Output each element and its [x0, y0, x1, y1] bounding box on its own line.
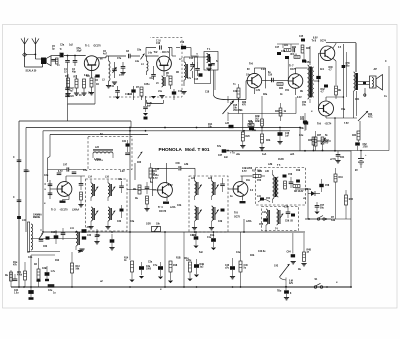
resistor R36r [314, 131, 317, 151]
svg-text:L26AA: L26AA [72, 209, 80, 212]
svg-text:R1b: R1b [210, 235, 215, 237]
capacitor C43 [190, 232, 199, 248]
rail dots [18, 286, 352, 288]
wire Tr1 emitter [91, 71, 93, 78]
svg-text:S7u: S7u [217, 146, 222, 148]
cluster left of Tr8 [299, 35, 311, 63]
title [159, 147, 210, 152]
wire rail y127 [26, 128, 300, 233]
svg-text:SCALA 30: SCALA 30 [26, 70, 38, 73]
coil L3 [102, 56, 111, 88]
svg-text:Tr 7: Tr 7 [289, 64, 294, 68]
svg-text:Tr: Tr [60, 48, 62, 51]
svg-text:1uA: 1uA [262, 153, 267, 156]
wire Tr9 emitter [326, 116, 357, 130]
resistor R31m [275, 103, 287, 121]
wire y100 [147, 100, 164, 104]
dashed box T2 [88, 134, 132, 170]
dashed box T3T4 [262, 207, 299, 231]
svg-text:R2b: R2b [266, 140, 271, 142]
svg-text:7Bu: 7Bu [277, 291, 282, 293]
vertical rail x354 [326, 43, 356, 72]
label Tr9 [317, 122, 332, 126]
IF2 cap a [220, 178, 225, 192]
svg-text:6.7V: 6.7V [242, 171, 247, 173]
resistor R34d [352, 131, 360, 142]
resistor R17 [252, 171, 265, 178]
label gamma medie [33, 214, 42, 219]
label Tr1 [85, 44, 101, 48]
svg-text:MEDIE: MEDIE [33, 217, 41, 219]
capacitor C64b [94, 229, 99, 244]
svg-text:1/2R: 1/2R [146, 224, 151, 226]
wire node A [64, 55, 86, 57]
IF1 cap b [117, 205, 124, 223]
wire Tr8 base [314, 53, 321, 108]
capacitor C15 [194, 62, 200, 81]
box around T1 [195, 54, 211, 84]
wire Tr6 emitter [254, 88, 260, 94]
capacitor C16 [176, 42, 191, 56]
label Tr2 [154, 50, 170, 54]
svg-text:6.7V: 6.7V [153, 178, 158, 180]
resistor R14b [129, 261, 134, 282]
svg-text:NTC: NTC [368, 116, 373, 118]
T5 bottom parts [257, 196, 271, 202]
svg-text:8V: 8V [247, 69, 250, 71]
capacitor on x26 [24, 170, 30, 173]
T3T4 caps [286, 207, 295, 218]
wire x184 col [184, 232, 192, 287]
wire x165 col [164, 232, 166, 287]
svg-text:S1b: S1b [331, 220, 336, 222]
capacitor C55 [259, 218, 268, 226]
IF1 coil 3 [88, 207, 98, 229]
switch S1b [317, 216, 335, 223]
capacitor C2 blob [41, 58, 46, 65]
svg-text:C4u: C4u [299, 134, 304, 137]
transistor Tr9 [319, 101, 334, 116]
wire x305 down [305, 196, 308, 219]
trimmer C9 [140, 54, 144, 60]
capacitor C37 [218, 149, 229, 159]
wire if top [48, 169, 87, 171]
svg-text:1000: 1000 [146, 268, 152, 270]
svg-text:9V: 9V [355, 170, 358, 172]
diode D1 [305, 189, 320, 196]
wire Tr6-Tr7 [262, 58, 289, 81]
label Tr6 [247, 62, 266, 72]
svg-text:u7u: u7u [225, 267, 230, 269]
svg-text:Tr9: Tr9 [317, 122, 321, 126]
capacitor C6 [95, 75, 100, 83]
svg-text:OC170: OC170 [94, 46, 102, 48]
svg-text:L2B: L2B [268, 164, 273, 166]
T5 winding [273, 170, 279, 203]
capacitor C62b [43, 236, 50, 248]
svg-text:C2b: C2b [28, 257, 33, 259]
wire Tr8 collector [333, 43, 336, 48]
resistor Rm1 [240, 132, 250, 148]
wire antenna joins [25, 54, 43, 67]
wire Tr5 base [228, 188, 233, 190]
wire Tr8 emitter [329, 59, 337, 86]
resistor R25t [0, 0, 1, 1]
resistor R13 [71, 252, 81, 287]
part A10 [82, 226, 92, 240]
svg-text:- OC171: - OC171 [161, 52, 170, 54]
pot half R [146, 224, 161, 232]
wire x19 top [18, 120, 20, 122]
driver transformer T6 [304, 61, 314, 99]
resistor R15b [168, 261, 178, 283]
wire battery [351, 150, 389, 153]
wire x130 col [129, 232, 131, 260]
dashed box IF1 [86, 179, 128, 231]
label C59 [285, 221, 294, 223]
svg-text:6.7V: 6.7V [58, 171, 63, 173]
wire x26 col [0, 0, 1, 1]
transformer T1 box [204, 49, 218, 70]
svg-text:Tr5: Tr5 [234, 211, 238, 215]
capacitor C53 [300, 113, 307, 131]
svg-text:AP: AP [374, 68, 378, 71]
svg-text:R1B: R1B [176, 258, 181, 260]
T2 winding [93, 147, 113, 162]
label Tr4 [150, 175, 167, 213]
label Tr3 [51, 208, 80, 212]
coil L5 osc [156, 76, 165, 87]
svg-text:2uF: 2uF [224, 157, 229, 159]
resistor R28m [255, 114, 263, 126]
IF2 cap b [218, 209, 225, 224]
svg-text:C4u: C4u [236, 251, 241, 254]
svg-text:7.5V: 7.5V [344, 123, 349, 125]
capacitor C3a [139, 262, 152, 279]
vertical rail x345 [342, 44, 351, 118]
svg-text:R8 16.8V: R8 16.8V [294, 191, 304, 193]
svg-text:R1u: R1u [96, 235, 101, 237]
ground g1 [151, 80, 165, 99]
trimmer C14 [190, 62, 195, 78]
wire mid right [334, 130, 336, 151]
capacitor C47 series [63, 164, 69, 172]
wire Tr5 emitter [240, 195, 246, 203]
transistor Tr5 [233, 182, 248, 197]
label R values [65, 76, 91, 79]
capacitor C28 [42, 266, 56, 281]
wire y232 dots [42, 127, 323, 233]
wire Tr7 emitter [296, 88, 303, 99]
wire Tr2 collector up [168, 48, 170, 58]
svg-text:u2A: u2A [290, 153, 295, 156]
svg-text:470k: 470k [17, 273, 23, 276]
resistor R30m [308, 137, 315, 151]
thermistor R33d [358, 111, 373, 131]
label mid [170, 206, 176, 209]
capacitor C4 [64, 55, 70, 73]
svg-text:+ 7u: + 7u [230, 153, 235, 155]
dashed segment [0, 0, 1, 1]
wire Tr4 collector [166, 163, 168, 184]
capacitor C11 [115, 86, 120, 99]
IF1 coil 4 [105, 207, 115, 229]
output transformer T5 primary [354, 43, 358, 91]
wire Tr3 emitter [60, 195, 70, 203]
capacitor C52b [316, 76, 328, 93]
part R25m [248, 121, 254, 126]
dashed box IF2 [189, 176, 228, 232]
IF2 coil 2 [208, 177, 219, 201]
resistor R46 [239, 232, 248, 287]
svg-text:Tr2: Tr2 [154, 50, 158, 54]
capacitor C105 [51, 230, 58, 244]
IF1 cap a [118, 179, 124, 193]
capacitor C21 col [67, 104, 69, 121]
resistor R4 [81, 79, 86, 95]
svg-text:C25u: C25u [144, 84, 150, 86]
wire y219 [305, 218, 331, 220]
resistor R1 [0, 0, 1, 1]
wire between box1 Tr4 [127, 163, 156, 190]
wire Tr4 base [153, 184, 158, 196]
dashed box T5 [256, 165, 306, 205]
svg-text:C7u: C7u [153, 265, 158, 267]
T2 caps [122, 140, 130, 155]
svg-text:VOLUME: VOLUME [233, 110, 243, 112]
svg-text:C2u: C2u [44, 175, 49, 177]
svg-text:L26A: L26A [246, 220, 252, 223]
resistor R2 [65, 74, 70, 96]
labels group bottom [13, 250, 302, 291]
label L26A [244, 219, 252, 232]
resistor R6 [169, 76, 172, 89]
labels bottom right [336, 282, 338, 284]
agc cluster labels [275, 45, 297, 56]
resistor R24 [277, 83, 284, 90]
svg-text:C35u: C35u [153, 175, 159, 177]
svg-text:1.3V: 1.3V [256, 90, 261, 92]
capacitor C58 [319, 179, 330, 192]
T3T4 winding 1 [266, 209, 270, 232]
svg-text:C 10: C 10 [156, 41, 162, 43]
resistor R36b [345, 190, 354, 213]
vertical x351 bottom [350, 219, 352, 287]
coil L4 [141, 56, 148, 75]
svg-text:OC170: OC170 [159, 211, 167, 213]
capacitor C65 [109, 234, 114, 250]
resistor R5 [89, 78, 94, 95]
capacitor C7b2 [153, 262, 163, 279]
switch S1a [314, 279, 328, 288]
capacitor C63 [61, 228, 66, 240]
trimmer cap C3 [60, 48, 64, 58]
wire Tr2 feedback top [146, 48, 172, 57]
capacitor C62 [355, 142, 368, 150]
wire Tr9 base [311, 109, 318, 114]
resistor R7 [140, 87, 143, 100]
trimmer C7 [112, 60, 117, 84]
capacitor C42 [207, 232, 216, 250]
antenna AN1 [21, 38, 28, 68]
labels group rf2 [60, 45, 192, 98]
capacitor C46 [277, 129, 289, 144]
input coil L1 cone [46, 56, 51, 66]
T2 trimmer [137, 152, 142, 164]
battery B1 [355, 153, 367, 173]
wire to speaker [354, 82, 370, 119]
svg-text:C3u: C3u [83, 170, 88, 172]
part L28 [225, 123, 234, 128]
wire y150 rail [222, 150, 351, 155]
IF1 coil 1 [91, 180, 98, 202]
svg-text:4.25Vu: 4.25Vu [94, 158, 102, 161]
wire rail y131 [43, 131, 290, 232]
svg-text:- OC170: - OC170 [59, 210, 68, 212]
labels group amp1 [230, 38, 388, 126]
svg-text:C13u: C13u [125, 94, 131, 96]
ferrite antenna L10 [22, 220, 60, 255]
svg-text:1.7u: 1.7u [51, 271, 56, 273]
IF2 coil 3 [192, 206, 202, 230]
resistor R23 [233, 84, 240, 102]
wire Tr5 collector [241, 167, 253, 182]
svg-text:Mod.: Mod. [185, 147, 196, 152]
coil L11 [70, 228, 83, 253]
svg-text:6.7V: 6.7V [168, 185, 173, 187]
pot R37 [316, 135, 331, 144]
T3T4 winding 2 [277, 209, 284, 225]
transistor Tr7 [288, 74, 303, 89]
label Tr5 [234, 211, 241, 219]
capacitor C57 [314, 202, 324, 214]
svg-text:PHONOLA: PHONOLA [159, 147, 183, 152]
parts before Tr4 [133, 182, 150, 211]
svg-text:8.5V: 8.5V [313, 38, 318, 40]
wire Tr7 to driver [304, 46, 310, 103]
svg-text:L2B: L2B [184, 164, 189, 166]
capacitor C50 [268, 72, 273, 82]
svg-text:40p: 40p [72, 70, 77, 73]
capacitor C34m [300, 116, 308, 130]
speaker AP [370, 68, 383, 90]
svg-text:u0u: u0u [236, 154, 241, 156]
capacitor C22 [65, 88, 74, 98]
labels group mid1 [208, 116, 304, 156]
svg-text:50u: 50u [320, 207, 325, 209]
transformer T1 windings [206, 54, 214, 71]
wire right rail x389 [385, 61, 389, 151]
resistor R26m [259, 126, 264, 150]
resistor R3 [74, 75, 79, 95]
svg-text:5uF: 5uF [199, 252, 204, 254]
wire x346 to rail [331, 188, 346, 219]
transistor Tr4 [158, 183, 173, 198]
resistor R32m [321, 137, 329, 151]
svg-text:C59 .05: C59 .05 [285, 221, 294, 223]
wire Tr2 emitter [163, 71, 165, 76]
svg-text:C4r: C4r [246, 74, 250, 77]
resistor R11b [17, 262, 27, 287]
vertical x351 [350, 151, 352, 177]
wire osc top [172, 56, 199, 62]
wire to Tr2 [145, 55, 159, 57]
svg-text:42V: 42V [289, 282, 294, 285]
svg-text:50u: 50u [302, 104, 307, 106]
wire pot [227, 96, 229, 121]
agc cluster parts [277, 44, 300, 59]
labels group rf1 [52, 46, 218, 94]
label SCALA [26, 70, 38, 73]
svg-text:1700: 1700 [363, 146, 369, 148]
wire y163 [153, 168, 179, 184]
wire Tr6 collector [254, 68, 265, 88]
resistor R16b [185, 258, 193, 281]
wire Tr1 collector [86, 55, 87, 58]
labels group volts [94, 158, 337, 187]
wire x351 lower [346, 176, 351, 219]
resistor R16 [149, 163, 157, 182]
wire Tr7 collector [296, 68, 305, 74]
wire Tr4 emitter [163, 197, 169, 204]
capacitor C5 [72, 55, 77, 73]
capacitor C13 [128, 86, 136, 100]
svg-text:16.8V: 16.8V [278, 159, 284, 161]
IF2 coil 4 [209, 206, 219, 230]
svg-text:Tr 4: Tr 4 [158, 205, 163, 209]
volume pot R15 [222, 100, 243, 118]
capacitor C7b [119, 62, 126, 77]
transistor Tr6 [247, 73, 262, 88]
ground gm1 [79, 249, 84, 251]
wire rail y121 [19, 121, 131, 287]
transistor Tr3 [57, 182, 72, 197]
capacitor C8 series [126, 51, 140, 58]
wire Tr9 collector [326, 96, 344, 100]
below rail comp [277, 287, 292, 300]
resistor R12b [34, 258, 41, 287]
svg-text:Tr 1: Tr 1 [85, 44, 90, 48]
IF2 coil 1 [191, 177, 202, 201]
labels group t5 [250, 164, 306, 214]
capacitor C25 [143, 96, 153, 120]
capacitor C12 [150, 66, 156, 80]
svg-text:Tr6: Tr6 [249, 62, 253, 66]
svg-text:- OC74: - OC74 [324, 123, 332, 126]
dashed box converter [109, 38, 182, 98]
label Tr7 [289, 64, 297, 72]
antenna AN2 [32, 38, 39, 60]
svg-text:4.2V: 4.2V [120, 170, 125, 173]
svg-text:C42 8u: C42 8u [258, 250, 266, 253]
part small box [48, 285, 56, 295]
parts left of box1 [78, 176, 83, 207]
wire x262 up [228, 96, 296, 132]
capacitor C41 [194, 232, 204, 277]
svg-text:R2B: R2B [255, 121, 260, 123]
svg-text:u7.5V: u7.5V [330, 159, 337, 161]
svg-text:R1u: R1u [185, 258, 190, 260]
pot R41 diagonal [274, 264, 294, 288]
svg-text:OC74: OC74 [320, 40, 327, 43]
svg-text:R4b: R4b [250, 254, 255, 257]
capacitor C24b [14, 255, 34, 300]
transistor Tr1 [84, 56, 99, 71]
svg-text:MR1u: MR1u [305, 189, 312, 191]
svg-text:C45u: C45u [305, 61, 311, 64]
capacitor C10 [156, 41, 162, 50]
capacitor C36 series [176, 163, 196, 177]
